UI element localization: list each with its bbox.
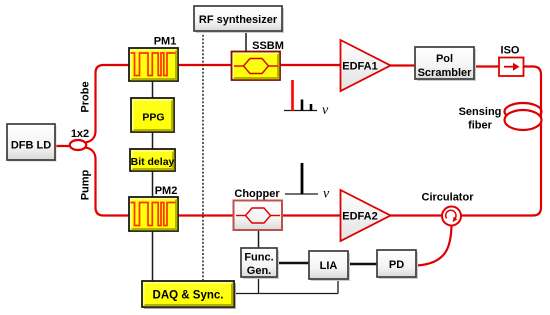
svg-text:EDFA2: EDFA2: [342, 211, 377, 223]
Chopper: [234, 188, 283, 230]
svg-text:SSBM: SSBM: [252, 40, 284, 52]
wire PPG to Bit delay: [152, 132, 154, 149]
wire Bit delay to PM2: [152, 171, 154, 197]
Pol Scrambler: [415, 47, 476, 81]
Circulator: [422, 192, 475, 226]
svg-text:LIA: LIA: [320, 260, 338, 272]
svg-text:Gen.: Gen.: [247, 265, 271, 277]
wire ISO to circulator via sensing fiber: [462, 67, 542, 216]
wire circulator to PD: [417, 226, 452, 266]
wire Func Gen to LIA: [277, 262, 309, 265]
wire DAQ bus horizontal: [234, 293, 338, 295]
wire DFB LD to coupler: [54, 145, 71, 147]
svg-text:PD: PD: [389, 259, 404, 271]
wire probe branch: [86, 65, 130, 143]
wire PM1 to SSBM: [178, 64, 232, 66]
svg-text:DFB LD: DFB LD: [11, 140, 51, 152]
wire dashed sync line: [202, 31, 204, 281]
SSBM: [232, 40, 284, 80]
PPG: [131, 98, 174, 132]
wire SSBM to EDFA1: [280, 64, 341, 66]
probe spectrum: [284, 80, 329, 118]
wire PM1 to PPG: [152, 81, 154, 98]
svg-text:PM1: PM1: [154, 36, 177, 48]
svg-text:Func.: Func.: [244, 252, 273, 264]
LIA: [309, 251, 350, 281]
svg-text:PM2: PM2: [155, 185, 178, 197]
PM2: [129, 185, 178, 231]
svg-text:RF synthesizer: RF synthesizer: [199, 14, 278, 26]
wire DAQ bus up to LIA: [337, 279, 339, 294]
svg-text:Pump: Pump: [80, 169, 92, 200]
wire PM2 to DAQ: [152, 231, 154, 281]
op-amp EDFA2: [341, 190, 391, 241]
wire pump branch: [86, 148, 130, 216]
wire Func Gen down to DAQ bus: [258, 277, 260, 294]
coupler 1x2: [70, 140, 86, 150]
PM1: [129, 36, 178, 82]
DFB LD: [7, 124, 57, 162]
svg-text:1x2: 1x2: [71, 128, 89, 140]
svg-text:EDFA1: EDFA1: [342, 61, 377, 73]
Sensing fiber coil: [505, 103, 542, 130]
wire chopper to EDFA2: [282, 214, 341, 216]
wire circulator to EDFA2: [389, 214, 442, 216]
wire LIA to PD: [348, 263, 377, 266]
svg-text:fiber: fiber: [468, 120, 493, 132]
svg-text:Scrambler: Scrambler: [418, 67, 473, 79]
svg-text:ν: ν: [322, 103, 329, 118]
svg-text:PPG: PPG: [142, 112, 164, 124]
node Sensing fiber label: [459, 106, 502, 132]
svg-text:ν: ν: [323, 187, 330, 202]
svg-text:Chopper: Chopper: [234, 188, 280, 200]
RF synthesizer: [194, 6, 284, 33]
op-amp EDFA1: [341, 40, 391, 91]
svg-text:DAQ & Sync.: DAQ & Sync.: [153, 290, 224, 302]
svg-text:Bit delay: Bit delay: [131, 156, 175, 168]
wire chopper to Func Gen: [258, 230, 260, 248]
svg-text:Sensing: Sensing: [459, 106, 502, 118]
ISO: [499, 45, 524, 77]
DAQ and Sync: [142, 281, 236, 309]
Func Gen: [241, 248, 279, 279]
Bit delay: [130, 149, 175, 171]
wire PM2 to chopper: [178, 214, 233, 216]
svg-text:Circulator: Circulator: [422, 192, 475, 204]
PD: [377, 250, 418, 279]
svg-text:Pol: Pol: [436, 53, 453, 65]
wire EDFA1 to Pol Scrambler: [389, 64, 415, 66]
svg-text:ISO: ISO: [501, 45, 520, 57]
wire Pol Scrambler to ISO: [474, 65, 499, 67]
wire RF synthesizer to SSBM: [245, 31, 247, 51]
svg-text:Probe: Probe: [80, 81, 92, 112]
pump spectrum: [285, 163, 330, 202]
